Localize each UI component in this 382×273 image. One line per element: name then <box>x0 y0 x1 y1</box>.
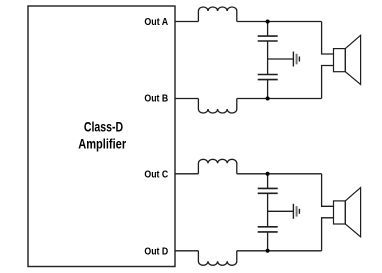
svg-text:Out A: Out A <box>144 16 168 28</box>
svg-text:Out D: Out D <box>144 246 168 258</box>
svg-text:Class-D: Class-D <box>84 120 123 135</box>
svg-text:Out B: Out B <box>144 93 168 105</box>
svg-text:Amplifier: Amplifier <box>78 137 127 152</box>
svg-text:Out C: Out C <box>144 169 168 181</box>
